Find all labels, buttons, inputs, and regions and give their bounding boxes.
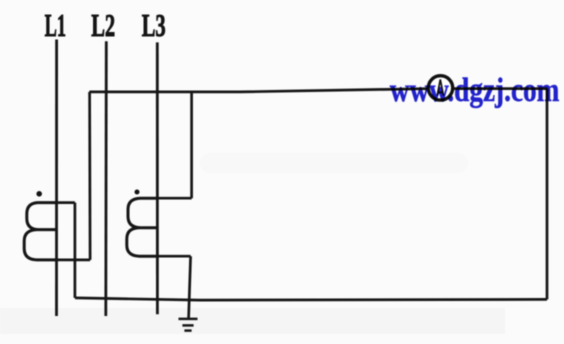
wire CT1 S2 riser to top bus [88,92,91,260]
transformer CT1 secondary winding [24,203,56,260]
svg-text:L3: L3 [142,7,166,43]
ammeter PA [428,76,452,100]
wire CT1 S1 drop to bottom bus [74,203,77,298]
svg-text:www.dgzj.com: www.dgzj.com [390,72,560,109]
wire CT2 S1 to riser [157,197,191,200]
wire L3 phase line [156,42,159,314]
wire CT2 S1 riser to top bus [190,91,193,198]
wire L1 phase line [55,40,58,317]
transformer CT2 polarity dot [135,190,140,195]
wire right side drop [546,89,549,300]
wire top bus to ammeter [89,89,547,92]
ground [179,319,198,331]
transformer CT1 polarity dot [36,191,42,197]
svg-text:L1: L1 [45,7,66,43]
wire L2 phase line [104,41,107,316]
wire CT1 S1 to drop [57,201,75,204]
svg-text:L2: L2 [91,7,115,43]
transformer CT2 secondary winding [127,198,158,256]
wire CT2 S2 to drop [157,255,190,258]
wire bottom bus [75,298,547,300]
wire CT2 S2 drop to ground [189,256,191,318]
wire CT1 S2 to riser [57,259,91,262]
